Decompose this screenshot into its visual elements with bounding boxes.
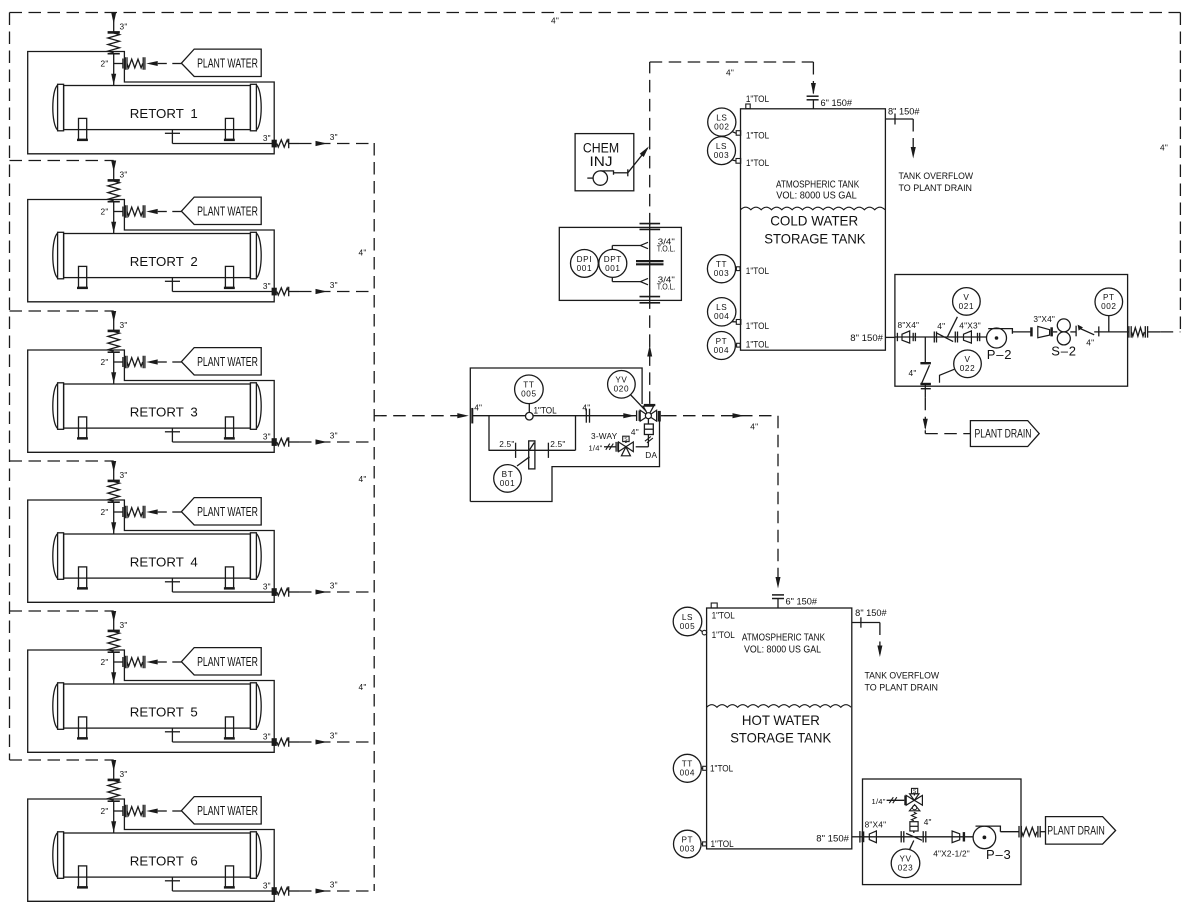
svg-text:RETORT 5: RETORT 5 [130,705,198,720]
svg-text:S–2: S–2 [1051,343,1077,358]
flow element enclosure box [559,227,681,300]
svg-text:3": 3" [330,581,338,591]
retort 6 3" outlet dashed line to collector [299,890,374,892]
retort 2 2" plant water tee [114,211,123,213]
cold tank water level wavy line [741,207,885,210]
skid inlet flange tick [896,333,898,341]
chem injection line arrow into riser [628,148,648,173]
4" riser to cold tank (dashed) [649,303,651,404]
svg-text:2": 2" [101,806,109,816]
svg-text:020: 020 [614,385,629,394]
hot water storage tank shell [707,608,852,849]
retort 2 right support leg [225,266,233,287]
PT003 nozzle [703,842,707,846]
retort 2 outlet valve (filled) [272,288,277,296]
instrument TT004 [701,767,702,769]
retort 2 drain line [171,278,173,292]
hot suction line [863,836,974,838]
retort 2 left support leg [79,266,87,287]
svg-text:1"TOL: 1"TOL [746,158,769,168]
svg-text:4": 4" [631,427,639,437]
svg-text:4": 4" [924,817,932,827]
instrument DPI001 [571,250,599,278]
bypass loop with heater element [488,416,490,451]
cold tank inlet flange 6" 150# [807,95,819,97]
instrument PT002 [1108,316,1110,332]
cold pump skid enclosure [895,275,1128,387]
svg-text:3": 3" [263,281,271,291]
svg-text:021: 021 [959,302,974,311]
right supply riser (dashed) [1179,13,1181,332]
svg-text:V: V [963,293,969,302]
skid union flanges [585,409,587,423]
svg-text:001: 001 [605,264,620,273]
orifice plate assembly [636,260,664,262]
retort 5 enclosure box [28,650,275,752]
TT004 nozzle [703,766,707,770]
PT004 nozzle [737,343,741,347]
cold tank overflow line [885,118,913,120]
retort 3 2" feed drop arrow [113,362,115,384]
instrument DPT001 [599,249,627,277]
svg-text:PLANT WATER: PLANT WATER [197,804,258,818]
retort 6 feed branch dashed line [10,759,114,761]
discharge to right riser (dashed) [1148,331,1161,333]
retort 6 vessel shell [64,833,251,877]
instrument V022 [940,369,955,382]
svg-text:1"TOL: 1"TOL [746,131,769,141]
cold water storage tank shell [741,109,886,350]
retort 2 3" feed drop with arrow [113,161,115,180]
svg-text:P–3: P–3 [986,847,1012,862]
4" header to cold tank (dashed) [650,61,814,63]
svg-text:RETORT 3: RETORT 3 [130,405,198,420]
svg-text:ATMOSPHERIC TANK: ATMOSPHERIC TANK [742,632,826,643]
svg-text:3-WAY: 3-WAY [591,431,618,441]
retort 3 plant water flexible connector [124,356,126,369]
LS005 nozzle [702,630,707,635]
svg-text:3": 3" [330,280,338,290]
retort 6 outlet flexible connector [277,887,289,894]
YV023 actuator spring [911,812,916,821]
retort 4 2" plant water tee [114,511,123,513]
retort 4 3" feed drop with arrow [113,461,115,480]
retort 4 flexible connector (vertical) [108,480,120,483]
YV020 air signal line with slashes [647,435,649,447]
retort 5 vessel left head [58,683,64,730]
svg-text:3": 3" [330,880,338,890]
svg-text:LS: LS [716,142,727,151]
retort 6 plant water flow arrow [146,809,158,814]
skid inlet flange [471,408,473,424]
retort 6 2" feed drop arrow [113,811,115,833]
8x4 hot suction reducer [869,831,876,843]
svg-text:004: 004 [714,312,729,321]
svg-text:004: 004 [714,346,729,355]
svg-text:3": 3" [120,22,128,32]
retort 4 vessel shell [64,534,251,578]
svg-text:TANK OVERFLOW: TANK OVERFLOW [899,170,974,181]
heater skid enclosure (lower outline) [470,421,659,501]
retort 5 2" plant water tee [114,661,123,663]
retort 2 feed branch dashed line [10,160,114,162]
svg-text:STORAGE TANK: STORAGE TANK [764,230,866,246]
retort 6 enclosure box [28,799,275,901]
svg-text:3"X4": 3"X4" [1033,314,1055,324]
retort 3 vessel right head [250,383,256,430]
svg-text:2": 2" [101,507,109,517]
instrument YV020 [630,395,646,412]
hot pump discharge line [1000,831,1019,833]
svg-text:ATMOSPHERIC TANK: ATMOSPHERIC TANK [776,179,860,190]
retort 4 vessel left head [58,533,64,580]
svg-text:1"TOL: 1"TOL [746,266,769,276]
svg-text:P–2: P–2 [987,347,1013,362]
svg-text:VOL: 8000 US GAL: VOL: 8000 US GAL [744,644,821,655]
retort 3 drain line [171,428,173,442]
svg-text:RETORT 6: RETORT 6 [130,854,198,869]
svg-text:TO PLANT DRAIN: TO PLANT DRAIN [865,682,939,693]
retort 6 3" feed drop with arrow [113,760,115,779]
svg-text:004: 004 [680,769,695,778]
svg-text:YV: YV [615,376,627,385]
retort 3 vessel shell [64,384,251,428]
svg-text:8" 150#: 8" 150# [855,608,887,618]
retort 4 plant water flexible connector [124,506,126,519]
svg-text:YV: YV [899,855,911,864]
retort 2 flexible connector (vertical) [108,179,120,182]
svg-text:3": 3" [330,731,338,741]
retort 4 plant water flow arrow [146,509,158,514]
retort 5 2" feed drop arrow [113,662,115,684]
retort 5 plant water flexible connector [124,656,126,669]
top 4" supply header (dashed) [10,12,1181,14]
svg-text:002: 002 [714,123,729,132]
svg-text:DPI: DPI [577,255,592,264]
retort 1 plant water flexible connector [124,57,126,70]
LS003 nozzle [736,159,741,164]
retort 1 vessel left head [58,84,64,131]
retort 2 plant water flow arrow [146,209,158,214]
suction drain tee with valve V022 [924,337,926,362]
svg-text:003: 003 [714,269,729,278]
PLANT DRAIN flag (hot) [1046,817,1116,845]
svg-text:STORAGE TANK: STORAGE TANK [730,730,832,746]
orifice flanges above box [640,223,661,225]
lower 3/4" tap [640,278,648,284]
retort 5 vessel right head [250,683,256,730]
retort 2 vessel left head [58,232,64,278]
instrument LS002 [732,131,737,133]
svg-text:4": 4" [551,16,559,26]
svg-text:6" 150#: 6" 150# [786,596,818,606]
svg-text:TO PLANT DRAIN: TO PLANT DRAIN [899,182,973,193]
svg-text:8" 150#: 8" 150# [888,107,920,117]
valve V021 butterfly [933,332,935,343]
retort 4 PLANT WATER flag [181,498,261,525]
svg-text:1/4": 1/4" [589,444,603,453]
svg-text:VOL: 8000 US GAL: VOL: 8000 US GAL [776,191,857,202]
heater element BT001 body [529,441,535,469]
retort 5 vessel shell [64,684,251,728]
YV023 relief triangle [909,805,920,811]
retort 1 2" feed drop arrow [113,64,115,86]
retort 5 feed branch dashed line [10,610,114,612]
retort 2 enclosure box [28,200,275,302]
svg-text:DA: DA [645,450,657,460]
retort 2 2" feed drop arrow [113,212,115,234]
svg-text:8" 150#: 8" 150# [850,333,883,343]
retort 5 3" feed drop with arrow [113,611,115,630]
svg-text:1"TOL: 1"TOL [712,630,735,640]
svg-text:PLANT WATER: PLANT WATER [197,57,258,71]
svg-text:HOT WATER: HOT WATER [742,712,820,728]
retort 2 3" outlet dashed line to collector [299,291,374,293]
retort 4 vessel right head [250,533,256,580]
retort 3 plant water flow arrow [146,359,158,364]
upper 3/4" tap [640,242,648,248]
4" line to hot tank (dashed) [661,415,664,417]
svg-text:1/4": 1/4" [872,797,886,806]
svg-text:TT: TT [682,760,693,769]
skid inlet flange (filled) [862,831,865,842]
svg-text:PLANT WATER: PLANT WATER [197,355,258,369]
svg-text:4"X2-1/2": 4"X2-1/2" [933,849,970,859]
retort 1 right support leg [225,118,233,139]
svg-text:005: 005 [680,622,695,631]
retort 1 outlet valve (filled) [272,140,277,148]
svg-text:PLANT WATER: PLANT WATER [197,655,258,669]
drain to plant drain (dashed) [924,398,926,428]
orifice flanges at box bottom [640,296,661,298]
svg-text:V: V [964,355,970,364]
pump discharge line [1012,331,1031,333]
svg-text:PLANT WATER: PLANT WATER [197,205,258,219]
svg-text:RETORT 2: RETORT 2 [130,254,198,269]
instrument V021 [947,317,957,338]
svg-text:TT: TT [716,260,727,269]
svg-text:BT: BT [502,470,514,479]
svg-text:4": 4" [1160,142,1168,152]
TT003 nozzle [736,267,740,271]
retort 1 drain line [171,130,173,144]
svg-text:3": 3" [330,132,338,142]
svg-text:4": 4" [582,403,590,413]
svg-text:PLANT DRAIN: PLANT DRAIN [1047,826,1105,838]
strainer S-2 [1057,319,1070,332]
svg-text:4": 4" [750,421,758,431]
retort 3 outlet valve (filled) [272,438,277,446]
svg-text:2": 2" [101,59,109,69]
svg-text:2": 2" [101,207,109,217]
retort 1 left support leg [79,118,87,139]
retort 2 vessel right head [250,232,256,278]
pump P-2 [987,328,1007,348]
svg-text:2.5": 2.5" [499,439,514,449]
cold tank top nozzle 1"TOL [746,104,750,109]
retort 1 PLANT WATER flag [181,49,261,76]
svg-text:DPT: DPT [604,255,622,264]
hot discharge flexible connector [1018,826,1020,838]
svg-text:1"TOL: 1"TOL [712,610,735,620]
4" branch from collector to heater skid (dashed) [374,415,462,417]
retort 1 3" feed drop with arrow [113,13,115,32]
svg-text:LS: LS [682,613,693,622]
svg-text:003: 003 [714,151,729,160]
svg-text:3": 3" [120,620,128,630]
YV020 actuator DA box [647,419,649,424]
retort 5 outlet flexible connector [277,738,289,745]
retort 6 flexible connector (vertical) [108,779,120,782]
suction line [895,336,987,338]
svg-text:8"X4": 8"X4" [865,819,887,829]
svg-text:6" 150#: 6" 150# [821,98,853,108]
retort 4 3" outlet dashed line to collector [299,591,374,593]
svg-text:PLANT WATER: PLANT WATER [197,505,258,519]
retort 1 vessel shell [64,86,251,130]
svg-text:1"TOL: 1"TOL [711,839,734,849]
svg-text:003: 003 [680,844,695,853]
svg-text:002: 002 [1101,302,1116,311]
retort 5 outlet valve (filled) [272,738,277,746]
svg-text:022: 022 [960,364,975,373]
8x4 suction reducer [902,331,910,343]
retort 1 flexible connector (vertical) [108,31,120,34]
svg-text:4": 4" [359,474,367,484]
retort 3 2" plant water tee [114,361,123,363]
retort 5 plant water flow arrow [146,660,158,665]
3-way pilot solenoid valve [615,442,617,452]
svg-text:4": 4" [359,248,367,258]
svg-text:T.O.L.: T.O.L. [657,245,676,254]
retort 5 flexible connector (vertical) [108,630,120,633]
retort 4 left support leg [79,567,87,588]
retort 2 PLANT WATER flag [181,197,261,224]
heater skid enclosure (upper outline) [470,368,642,502]
hot tank water level wavy line [707,705,851,708]
svg-text:4": 4" [474,403,482,413]
retort 2 outlet flexible connector [277,288,289,295]
svg-text:023: 023 [898,864,913,873]
svg-text:2.5": 2.5" [550,439,565,449]
left supply riser (dashed) [9,13,11,761]
retort 1 outlet flexible connector [277,140,289,147]
retort 6 vessel right head [250,832,256,879]
retort 3 left support leg [79,417,87,438]
PLANT DRAIN flag (cold) [970,421,1039,447]
hot tank top nozzle 1"TOL [711,603,717,608]
discharge flexible connector [1128,326,1130,338]
retort 3 flexible connector (vertical) [108,330,120,333]
hot tank overflow line [852,622,880,624]
retort 3 PLANT WATER flag [181,348,261,375]
retort 4 2" feed drop arrow [113,512,115,534]
svg-text:T.O.L.: T.O.L. [657,283,676,292]
retort 4 right support leg [225,567,233,588]
svg-text:LS: LS [716,114,727,123]
LS004 nozzle [736,320,741,325]
retort 6 right support leg [225,866,233,887]
svg-text:3": 3" [263,582,271,592]
CHEM INJ box [575,134,634,191]
retort 1 plant water flow arrow [146,61,158,66]
instrument TT003 [735,268,738,270]
svg-text:8" 150#: 8" 150# [816,833,849,843]
svg-text:1"TOL: 1"TOL [746,340,769,350]
retort 4 enclosure box [28,500,275,602]
retort 6 outlet valve (filled) [272,887,277,895]
svg-text:3": 3" [120,470,128,480]
svg-text:3": 3" [263,881,271,891]
retort 5 PLANT WATER flag [181,648,261,675]
svg-text:PT: PT [1103,293,1115,302]
retort 5 3" outlet dashed line to collector [299,741,374,743]
svg-text:RETORT 4: RETORT 4 [130,555,198,570]
cold tank inlet drop (dashed) [812,62,814,94]
3" collector main (dashed) [373,143,375,891]
svg-text:3": 3" [263,732,271,742]
retort 1 enclosure box [28,52,275,154]
retort 2 plant water flexible connector [124,205,126,218]
YV023 actuator box [913,831,915,833]
retort 3 outlet flexible connector [277,438,289,445]
valve YV023 butterfly [900,831,902,842]
retort 3 feed branch dashed line [10,310,114,312]
svg-text:1"TOL: 1"TOL [746,94,769,104]
svg-text:TT: TT [523,381,534,390]
svg-text:PT: PT [716,337,728,346]
svg-text:3": 3" [120,769,128,779]
retort 2 vessel shell [64,234,251,278]
retort 6 plant water flexible connector [124,805,126,818]
instrument BT001 [517,457,530,466]
svg-text:4": 4" [726,68,734,78]
svg-text:001: 001 [500,479,515,488]
svg-text:4": 4" [359,682,367,692]
retort 4 outlet valve (filled) [272,588,277,596]
svg-text:1"TOL: 1"TOL [534,406,557,416]
instrument YV023 [910,841,914,850]
chem inj pump [593,171,607,185]
svg-text:LS: LS [716,303,727,312]
retort 3 3" feed drop with arrow [113,311,115,330]
svg-text:RETORT 1: RETORT 1 [130,106,198,121]
svg-text:3": 3" [120,170,128,180]
svg-text:001: 001 [577,264,592,273]
svg-text:2": 2" [101,357,109,367]
svg-text:3": 3" [263,133,271,143]
check valve [1075,326,1077,337]
svg-text:PLANT DRAIN: PLANT DRAIN [975,429,1032,441]
hot pump skid enclosure [863,779,1022,885]
retort 4 outlet flexible connector [277,588,289,595]
retort 3 3" outlet dashed line to collector [299,441,374,443]
pump P-3 [973,826,996,849]
retort 5 drain line [171,728,173,742]
retort 3 right support leg [225,417,233,438]
retort 6 vessel left head [58,832,64,879]
instrument PT004 [735,344,736,346]
svg-text:COLD WATER: COLD WATER [770,212,858,228]
svg-text:4": 4" [1086,338,1094,348]
hot 3-way pilot solenoid valve [904,795,906,805]
retort 1 2" plant water tee [114,63,123,65]
svg-text:4": 4" [909,368,917,378]
TT005 thermowell nozzle [526,412,534,420]
retort 4 feed branch dashed line [10,460,114,462]
svg-text:3": 3" [120,320,128,330]
instrument LS003 [731,160,736,161]
